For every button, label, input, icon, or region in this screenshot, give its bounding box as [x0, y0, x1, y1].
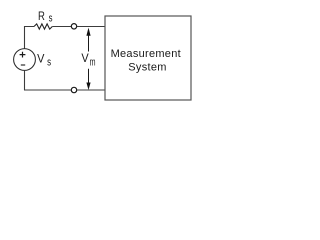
Vm arrow down — [88, 69, 90, 84]
svg-text:s: s — [49, 13, 53, 25]
Vm arrow up — [86, 28, 90, 36]
wire top-left segment (source to resistor) — [25, 27, 35, 49]
svg-text:Measurement: Measurement — [111, 48, 181, 60]
svg-text:s: s — [47, 56, 51, 68]
wire bottom rail (source to bottom terminal) — [24, 89, 71, 91]
svg-text:System: System — [128, 61, 166, 73]
measurement system box — [105, 16, 191, 100]
svg-text:R: R — [38, 9, 45, 23]
voltage source Vs — [14, 49, 36, 71]
plus sign — [20, 52, 26, 58]
wire top terminal to measurement box — [77, 26, 105, 28]
wire source to bottom rail — [24, 70, 26, 90]
svg-text:V: V — [37, 51, 44, 65]
resistor Rs — [34, 24, 52, 29]
svg-text:m: m — [90, 56, 96, 68]
wire resistor to top terminal — [52, 26, 71, 28]
wire bottom terminal to measurement box — [77, 89, 105, 91]
terminal node top (open circle) — [71, 24, 76, 29]
minus sign — [21, 64, 25, 66]
terminal node bottom (open circle) — [71, 87, 76, 92]
svg-text:V: V — [81, 51, 88, 65]
